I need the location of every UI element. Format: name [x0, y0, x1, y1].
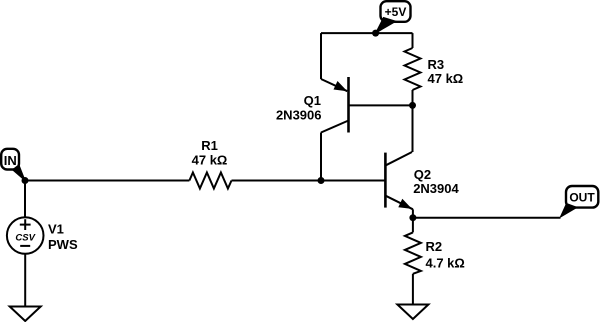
svg-text:47 kΩ: 47 kΩ	[192, 153, 228, 168]
transistor Q2	[385, 152, 413, 209]
voltage source V1	[7, 217, 44, 254]
junction emitter/R2/OUT	[409, 214, 416, 221]
svg-text:2N3906: 2N3906	[276, 108, 322, 123]
wire rail to Q1 emitter	[320, 33, 322, 79]
wire Q2 emitter to node	[412, 209, 414, 232]
svg-text:+5V: +5V	[385, 5, 407, 19]
wire V1 to ground	[24, 254, 26, 306]
wire +5V rail	[321, 32, 413, 34]
junction Q1 collector / main wire	[318, 177, 325, 184]
node OUT flag	[560, 186, 598, 217]
wire Q1 base	[349, 104, 413, 106]
svg-text:2N3904: 2N3904	[413, 181, 459, 196]
svg-text:IN: IN	[4, 153, 17, 168]
node +5V flag	[376, 1, 411, 33]
svg-text:R1: R1	[201, 138, 218, 153]
node IN flag	[1, 149, 25, 181]
wire OUT	[413, 217, 561, 219]
transistor Q1	[321, 77, 349, 133]
wire IN node to V1	[24, 181, 26, 218]
wire IN to R1	[25, 180, 189, 182]
wire R2 to ground	[412, 274, 414, 304]
junction R3/Q1 base/Q2 collector	[409, 102, 416, 109]
svg-text:Q1: Q1	[304, 93, 321, 108]
resistor R3	[405, 48, 421, 90]
resistor R1	[189, 173, 231, 189]
svg-text:Q2: Q2	[414, 167, 431, 182]
svg-text:R2: R2	[426, 239, 443, 254]
wire node to Q2 collector	[412, 105, 414, 152]
junction +5V tap	[372, 30, 379, 37]
ground (left)	[10, 307, 41, 322]
svg-text:R3: R3	[428, 57, 445, 72]
wire Q1 collector drop	[320, 133, 322, 181]
svg-text:V1: V1	[48, 222, 64, 237]
wire R3 to node	[412, 90, 414, 105]
wire R1 to Q2 base	[232, 180, 386, 182]
junction IN node	[22, 177, 29, 184]
ground (right)	[397, 305, 428, 320]
resistor R2	[405, 232, 421, 273]
svg-text:47 kΩ: 47 kΩ	[428, 71, 464, 86]
svg-text:PWS: PWS	[48, 237, 78, 252]
svg-text:CSV: CSV	[15, 233, 35, 244]
svg-text:4.7 kΩ: 4.7 kΩ	[426, 256, 465, 271]
wire rail to R3	[412, 33, 414, 48]
svg-text:OUT: OUT	[569, 191, 595, 205]
